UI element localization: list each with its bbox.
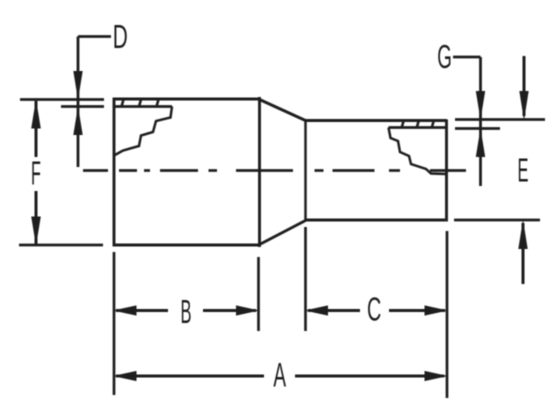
small end wall hatching bbox=[402, 121, 434, 128]
dimension E arrow lines bbox=[523, 56, 524, 284]
small end outline bbox=[306, 120, 448, 222]
small end bore line bbox=[389, 126, 447, 129]
dimension G leader bbox=[453, 57, 481, 186]
big end break line bbox=[114, 107, 172, 156]
svg-text:C: C bbox=[367, 290, 381, 328]
left bottom extension line bbox=[19, 244, 103, 247]
big end outline bbox=[113, 98, 261, 247]
junction line cone to small end bbox=[304, 121, 307, 221]
centerline bbox=[83, 169, 466, 172]
extension line right (A,C) bbox=[446, 231, 449, 398]
dimension A arrows bbox=[113, 371, 448, 381]
dimension A line bbox=[116, 375, 444, 378]
cone taper top bbox=[260, 100, 306, 121]
big end bore line bbox=[114, 105, 172, 108]
junction line big end to cone bbox=[258, 97, 261, 247]
svg-text:F: F bbox=[31, 154, 41, 192]
right bottom extension line bbox=[454, 219, 540, 222]
svg-text:B: B bbox=[180, 293, 191, 331]
svg-text:E: E bbox=[517, 151, 528, 189]
left OD extension line bbox=[20, 98, 104, 101]
dimension C line bbox=[308, 309, 445, 312]
dimension F arrows bbox=[31, 99, 41, 246]
dimension C arrows bbox=[305, 305, 449, 315]
right bore extension line bbox=[455, 127, 500, 130]
dimension F line bbox=[35, 101, 38, 244]
dimension D leader bbox=[78, 37, 111, 168]
dimension E arrows bbox=[518, 91, 528, 249]
extension line C left bbox=[304, 227, 307, 331]
right OD top extension line bbox=[455, 118, 545, 121]
left bore extension line bbox=[61, 105, 104, 108]
dimension B line bbox=[116, 309, 256, 312]
dimension G arrows bbox=[476, 91, 485, 157]
dimension D arrows bbox=[73, 71, 82, 135]
big end wall hatching bbox=[122, 100, 159, 107]
extension line B right bbox=[257, 257, 260, 331]
small end break line bbox=[389, 128, 447, 175]
svg-text:D: D bbox=[113, 18, 128, 55]
cone taper bottom bbox=[260, 221, 306, 245]
dimension B arrows bbox=[113, 305, 260, 315]
svg-text:G: G bbox=[437, 39, 452, 76]
extension line left (A,B) bbox=[113, 252, 116, 395]
svg-text:A: A bbox=[273, 356, 286, 394]
